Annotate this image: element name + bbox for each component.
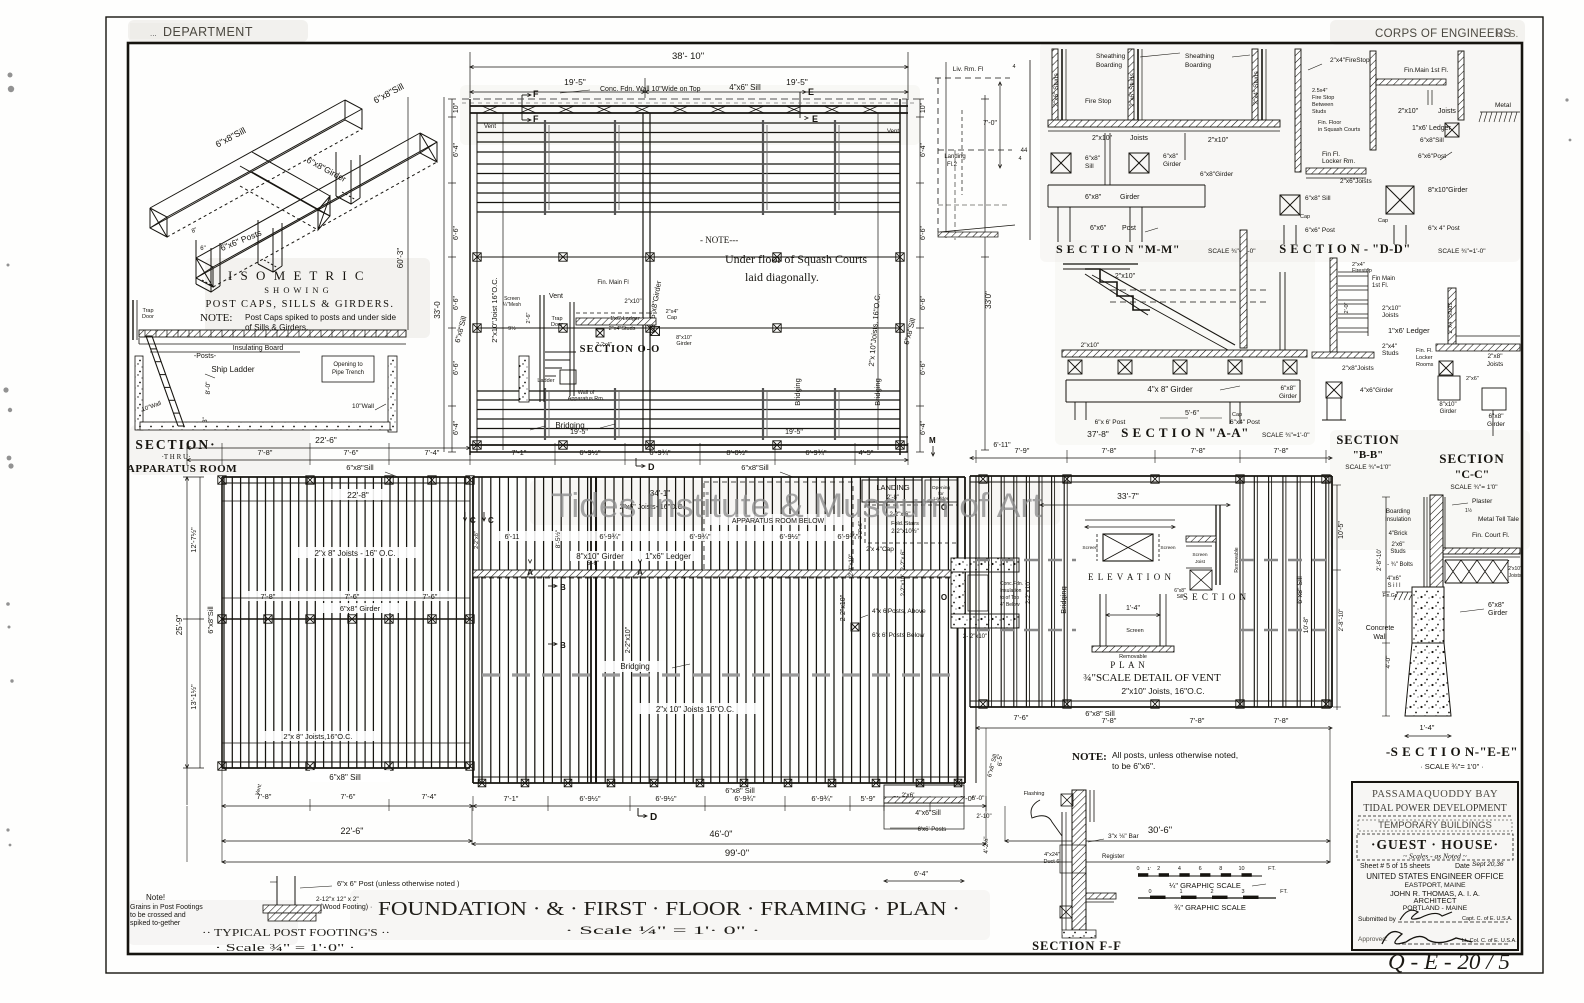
top plan left dims xyxy=(407,97,409,330)
svg-text:7'-4": 7'-4" xyxy=(425,448,440,457)
svg-text:TIDAL POWER DEVELOPMENT: TIDAL POWER DEVELOPMENT xyxy=(1363,803,1507,814)
svg-text:1'x6' Ledger: 1'x6' Ledger xyxy=(610,316,640,322)
svg-text:6'-6": 6'-6" xyxy=(920,226,927,240)
svg-text:Girder: Girder xyxy=(1120,194,1140,201)
svg-text:2'-10": 2'-10" xyxy=(976,814,991,820)
svg-text:6"x8" Sill: 6"x8" Sill xyxy=(1305,195,1331,202)
svg-text:2'x6": 2'x6" xyxy=(1392,542,1405,548)
section B-B xyxy=(1330,258,1337,352)
svg-text:8"x10"Girder: 8"x10"Girder xyxy=(1428,187,1468,194)
main plan left dim lines xyxy=(186,477,188,805)
svg-text:Between: Between xyxy=(1312,102,1333,108)
svg-text:Submitted by: Submitted by xyxy=(1358,916,1397,923)
svg-text:1"x6' Ledger: 1"x6' Ledger xyxy=(1412,125,1452,132)
svg-text:Cap: Cap xyxy=(1232,412,1242,418)
section E-E concrete xyxy=(1412,587,1444,643)
svg-text:Girder: Girder xyxy=(1163,161,1182,168)
svg-text:4: 4 xyxy=(1012,64,1015,70)
svg-text:Fin. Court Fl.: Fin. Court Fl. xyxy=(1472,532,1510,539)
svg-text:Grains in Post Footings: Grains in Post Footings xyxy=(130,904,203,911)
svg-text:Sill: Sill xyxy=(1085,163,1094,170)
svg-text:4: 4 xyxy=(1018,156,1021,162)
svg-text:33'-0: 33'-0 xyxy=(433,301,442,319)
svg-text:6"x8": 6"x8" xyxy=(1085,194,1102,201)
svg-text:6'-9½": 6'-9½" xyxy=(579,794,601,803)
svg-text:4"x6" Sill: 4"x6" Sill xyxy=(729,83,761,92)
svg-text:S E C T I O N: S E C T I O N xyxy=(1183,592,1247,602)
svg-text:-Posts-: -Posts- xyxy=(194,353,217,360)
svg-text:10"Wall: 10"Wall xyxy=(352,403,374,410)
svg-text:6"x8" Sill: 6"x8" Sill xyxy=(725,786,755,795)
svg-text:NOTE:: NOTE: xyxy=(200,312,232,324)
svg-text:8'-0": 8'-0" xyxy=(205,381,212,395)
svg-text:6'-4": 6'-4" xyxy=(920,143,927,157)
svg-text:2-2"x10": 2-2"x10" xyxy=(901,574,907,597)
svg-text:7'-1": 7'-1" xyxy=(504,794,519,803)
svg-text:4"x 6'Posts, Above: 4"x 6'Posts, Above xyxy=(872,608,926,615)
svg-text:2"x8"Joists: 2"x8"Joists xyxy=(1342,365,1374,372)
svg-text:SECTION F-F: SECTION F-F xyxy=(1032,939,1122,953)
svg-text:...: ... xyxy=(150,29,157,38)
svg-text:3: 3 xyxy=(1241,889,1244,895)
svg-text:2"x6" Studs: 2"x6" Studs xyxy=(1053,72,1060,106)
svg-text:2: 2 xyxy=(1157,866,1160,872)
svg-text:-S E C T I O N-"E-E": -S E C T I O N-"E-E" xyxy=(1386,744,1518,759)
svg-text:Joists: Joists xyxy=(1438,108,1456,115)
svg-text:6"x 6" Post (unless otherwise: 6"x 6" Post (unless otherwise noted ) xyxy=(337,879,460,888)
svg-text:2"x10": 2"x10" xyxy=(1092,135,1113,142)
svg-text:6'-9¾": 6'-9¾" xyxy=(599,532,621,541)
svg-text:Joists: Joists xyxy=(1130,135,1148,142)
svg-text:2-2"x 6": 2-2"x 6" xyxy=(901,550,907,571)
svg-text:7'-8": 7'-8" xyxy=(257,792,272,801)
isometric post caps sills girders xyxy=(150,100,437,292)
section C-C xyxy=(1448,288,1456,350)
vent detail elevation xyxy=(1085,519,1175,521)
svg-text:Apparatus Rm.: Apparatus Rm. xyxy=(568,396,605,402)
svg-text:10": 10" xyxy=(920,102,927,113)
svg-text:7'-1": 7'-1" xyxy=(512,448,527,457)
top plan girder splice rows xyxy=(477,256,900,258)
svg-text:Date: Date xyxy=(1455,863,1470,870)
section E-E truss xyxy=(1445,559,1508,561)
left room bottom sill xyxy=(222,761,470,763)
svg-text:Door: Door xyxy=(142,314,154,320)
svg-text:6'x 6' Posts Below: 6'x 6' Posts Below xyxy=(872,632,925,639)
svg-text:3": 3" xyxy=(203,417,209,422)
svg-text:Firestop: Firestop xyxy=(1352,268,1372,274)
svg-text:2"x10": 2"x10" xyxy=(1398,108,1419,115)
svg-text:Lt. Col. C. of E. U.S.A.: Lt. Col. C. of E. U.S.A. xyxy=(1462,938,1517,944)
svg-text:33'0": 33'0" xyxy=(984,291,993,309)
svg-text:4'-0": 4'-0" xyxy=(1385,655,1392,669)
svg-text:Joists: Joists xyxy=(1382,312,1399,319)
section F-F flashing xyxy=(1031,800,1062,836)
hall labels xyxy=(604,661,666,672)
svg-text:Tides Institute & Museum of Ar: Tides Institute & Museum of Art xyxy=(551,487,1043,525)
svg-text:"C-C": "C-C" xyxy=(1455,467,1490,481)
svg-text:6"x8": 6"x8" xyxy=(1488,602,1505,609)
svg-text:M: M xyxy=(929,436,936,445)
svg-text:6'-9½": 6'-9½" xyxy=(579,448,601,457)
svg-text:33'-7": 33'-7" xyxy=(1117,491,1139,501)
svg-text:P L A N: P L A N xyxy=(1110,660,1146,670)
section M-M floor xyxy=(1048,120,1280,127)
svg-text:Vent: Vent xyxy=(484,124,496,130)
svg-text:Fin Main: Fin Main xyxy=(1372,276,1395,282)
svg-text:- NOTE---: - NOTE--- xyxy=(700,235,738,245)
svg-text:6'-4": 6'-4" xyxy=(914,871,928,878)
svg-text:19'-5": 19'-5" xyxy=(570,429,588,436)
svg-text:6"x8": 6"x8" xyxy=(1163,153,1179,160)
svg-text:6'-6": 6'-6" xyxy=(920,296,927,310)
svg-text:Insulating Board: Insulating Board xyxy=(233,345,284,352)
svg-text:Fin.Main 1st Fl.: Fin.Main 1st Fl. xyxy=(1404,67,1449,74)
svg-text:6"x8"Sill: 6"x8"Sill xyxy=(346,463,374,472)
svg-text:7'-6": 7'-6" xyxy=(344,448,359,457)
svg-text:Bridging: Bridging xyxy=(873,378,882,406)
svg-text:4"x24": 4"x24" xyxy=(1044,852,1060,858)
top plan concrete wall dashed xyxy=(462,98,916,100)
svg-text:Flashing: Flashing xyxy=(1024,791,1045,797)
svg-text:6'-5": 6'-5" xyxy=(998,754,1004,766)
svg-text:60'-3": 60'-3" xyxy=(396,248,405,269)
landing area xyxy=(862,480,922,502)
section E-E wall xyxy=(1430,495,1443,587)
vent detail plan xyxy=(1099,594,1101,646)
svg-text:2'x 4"Cap: 2'x 4"Cap xyxy=(866,546,894,553)
svg-text:Q - E - 20 / 5: Q - E - 20 / 5 xyxy=(1388,949,1510,974)
svg-text:0: 0 xyxy=(1136,866,1139,872)
svg-text:TEMPORARY BUILDINGS: TEMPORARY BUILDINGS xyxy=(1378,820,1492,831)
svg-text:(Wood Footing) ·: (Wood Footing) · xyxy=(320,904,372,911)
svg-text:6"x 4" Post: 6"x 4" Post xyxy=(1428,225,1460,232)
svg-text:Screen: Screen xyxy=(1082,545,1098,551)
svg-text:SCALE ¾"=1'-0": SCALE ¾"=1'-0" xyxy=(1438,248,1486,255)
svg-text:2-2"x10½": 2-2"x10½" xyxy=(891,528,919,535)
svg-text:2"x4" Studs: 2"x4" Studs xyxy=(1253,70,1260,104)
svg-text:2'-8"-10': 2'-8"-10' xyxy=(1377,549,1383,571)
svg-text:spiked to-gether: spiked to-gether xyxy=(130,920,181,927)
top plan right dims xyxy=(919,99,921,452)
svg-text:7'-6": 7'-6" xyxy=(345,592,360,601)
svg-text:0: 0 xyxy=(1148,889,1151,895)
svg-text:Girder: Girder xyxy=(676,341,691,347)
svg-text:25'-9": 25'-9" xyxy=(175,615,184,636)
svg-text:46'-0": 46'-0" xyxy=(710,829,733,839)
section M-M sill boxes xyxy=(1051,153,1071,173)
svg-text:2'-0": 2'-0" xyxy=(1344,302,1350,313)
right room bottom sill xyxy=(970,700,1332,702)
svg-text:S i l l: S i l l xyxy=(1387,583,1400,589)
svg-text:6'-0": 6'-0" xyxy=(972,795,986,802)
svg-text:Duct 6': Duct 6' xyxy=(1044,859,1061,865)
svg-text:F: F xyxy=(533,89,539,99)
svg-text:CORPS OF ENGINEERS: CORPS OF ENGINEERS xyxy=(1375,28,1511,40)
svg-text:·GUEST · HOUSE·: ·GUEST · HOUSE· xyxy=(1371,837,1499,852)
svg-text:Screen: Screen xyxy=(1126,628,1143,634)
svg-text:44: 44 xyxy=(1021,148,1028,154)
svg-text:4"x6"Girder: 4"x6"Girder xyxy=(1360,387,1394,394)
svg-text:2"x10": 2"x10" xyxy=(1382,305,1401,312)
left room labels xyxy=(330,489,386,500)
svg-text:6"x6": 6"x6" xyxy=(1090,225,1107,232)
svg-text:30'-6": 30'-6" xyxy=(1148,825,1172,836)
svg-text:10'-8": 10'-8" xyxy=(1303,616,1310,633)
svg-text:6"x8" Sill: 6"x8" Sill xyxy=(1085,709,1115,718)
svg-text:4'-5": 4'-5" xyxy=(859,448,874,457)
svg-text:38'- 10": 38'- 10" xyxy=(672,51,704,62)
main plan left room joists xyxy=(224,477,465,768)
svg-text:2"x6" Studs: 2"x6" Studs xyxy=(1129,72,1136,106)
svg-text:8"x10" Girder: 8"x10" Girder xyxy=(576,552,624,561)
svg-text:Studs: Studs xyxy=(1312,109,1326,115)
svg-text:6"x8"Girder: 6"x8"Girder xyxy=(1200,171,1234,178)
right room bridging dashes xyxy=(976,559,1076,562)
svg-text:6'-9¾": 6'-9¾" xyxy=(805,448,827,457)
section E-E dims xyxy=(1385,497,1387,716)
svg-text:Wall: Wall xyxy=(1373,634,1387,641)
svg-text:Opening to: Opening to xyxy=(333,362,363,368)
svg-text:6'-9½": 6'-9½" xyxy=(655,794,677,803)
svg-text:Screen: Screen xyxy=(1160,545,1176,551)
svg-text:2'x10": 2'x10" xyxy=(1508,566,1522,572)
svg-text:NOTE:: NOTE: xyxy=(1072,751,1107,763)
svg-text:B: B xyxy=(560,641,566,650)
section E-E court floor xyxy=(1443,548,1520,554)
svg-text:Sheet # 5 of 15 sheets: Sheet # 5 of 15 sheets xyxy=(1360,863,1431,870)
svg-text:to be 6"x6".: to be 6"x6". xyxy=(1112,761,1155,771)
svg-text:2"x6"Joists: 2"x6"Joists xyxy=(1340,178,1372,185)
svg-text:7'-6": 7'-6" xyxy=(341,792,356,801)
svg-text:to be crossed and: to be crossed and xyxy=(130,912,186,919)
svg-text:·· TYPICAL POST FOOTING'S ··: ·· TYPICAL POST FOOTING'S ·· xyxy=(202,927,390,939)
svg-text:7'-8": 7'-8" xyxy=(1274,716,1289,725)
graphic scale three-quarter xyxy=(1138,897,1276,899)
svg-text:37'-8": 37'-8" xyxy=(1087,429,1109,439)
svg-text:2"x10"Joist 16"O.C.: 2"x10"Joist 16"O.C. xyxy=(490,277,499,343)
svg-text:7'-8": 7'-8" xyxy=(1274,446,1289,455)
svg-text:2"x 10" Joists 16"O.C.: 2"x 10" Joists 16"O.C. xyxy=(656,705,734,714)
svg-text:Metal Tell Tale: Metal Tell Tale xyxy=(1478,516,1519,523)
svg-text:2"x4"Studs: 2"x4"Studs xyxy=(609,326,636,332)
svg-text:6"x8": 6"x8" xyxy=(1280,385,1296,392)
svg-text:6'-6": 6'-6" xyxy=(453,361,460,375)
svg-text:E L E V A T I O N: E L E V A T I O N xyxy=(1088,572,1172,582)
svg-text:Cap: Cap xyxy=(1378,218,1388,224)
svg-text:9½: 9½ xyxy=(508,325,516,332)
svg-text:1'-4": 1'-4" xyxy=(1420,723,1435,732)
svg-text:6'-6": 6'-6" xyxy=(920,361,927,375)
main plan hall frame xyxy=(473,476,965,478)
svg-text:Removable: Removable xyxy=(1234,547,1240,573)
svg-text:4"x6"Sill: 4"x6"Sill xyxy=(915,810,941,817)
section A-A floor xyxy=(1062,350,1307,357)
svg-text:S E C T I O N "M-M": S E C T I O N "M-M" xyxy=(1056,242,1180,256)
svg-text:1st Fl.: 1st Fl. xyxy=(1372,283,1389,289)
svg-text:2"x10" Joists, 16"O.C.: 2"x10" Joists, 16"O.C. xyxy=(1121,686,1204,696)
svg-text:4: 4 xyxy=(1178,866,1181,872)
svg-text:Joists: Joists xyxy=(1509,573,1522,579)
svg-text:2-2"x8": 2-2"x8" xyxy=(474,531,480,549)
svg-text:All posts, unless otherwise no: All posts, unless otherwise noted, xyxy=(1112,750,1238,760)
svg-text:Joists: Joists xyxy=(1487,361,1504,368)
svg-text:Ladder: Ladder xyxy=(537,378,554,384)
hall girder band xyxy=(473,570,965,577)
svg-text:8"x10": 8"x10" xyxy=(1439,402,1456,408)
apparatus room below dashed xyxy=(704,482,853,570)
svg-text:Fl.2: Fl.2 xyxy=(947,162,958,168)
svg-text:· SCALE ¾"= 1'0" ·: · SCALE ¾"= 1'0" · xyxy=(1420,762,1484,771)
svg-text:Vent: Vent xyxy=(549,293,563,300)
svg-text:Insulation: Insulation xyxy=(1385,517,1411,523)
graphic scale quarter xyxy=(1138,875,1262,877)
svg-text:8: 8 xyxy=(1219,866,1222,872)
svg-text:6'-9½": 6'-9½" xyxy=(779,532,801,541)
section D-D girders xyxy=(1280,195,1300,215)
svg-text:6'-6": 6'-6" xyxy=(453,226,460,240)
svg-text:1"x6' Ledger: 1"x6' Ledger xyxy=(1388,326,1430,335)
svg-text:Capt. C. of E. U.S.A.: Capt. C. of E. U.S.A. xyxy=(1462,916,1513,922)
section D-D xyxy=(1295,49,1301,172)
svg-text:6'-11: 6'-11 xyxy=(505,534,520,541)
svg-text:Insulation: Insulation xyxy=(1000,588,1022,594)
svg-text:DEPARTMENT: DEPARTMENT xyxy=(163,25,253,39)
svg-text:Vent: Vent xyxy=(887,129,899,135)
svg-text:S E C T I O N "A-A": S E C T I O N "A-A" xyxy=(1121,425,1249,440)
svg-text:6"x8"Sill: 6"x8"Sill xyxy=(741,463,769,472)
svg-text:FT.: FT. xyxy=(1280,889,1288,895)
svg-text:2"x10": 2"x10" xyxy=(1208,137,1229,144)
top plan bottom band xyxy=(470,436,908,438)
svg-text:4"x6": 4"x6" xyxy=(1387,576,1401,582)
right room frame xyxy=(970,475,1332,477)
svg-text:6'-4": 6'-4" xyxy=(453,421,460,435)
svg-text:S H O W I N G: S H O W I N G xyxy=(264,285,330,295)
svg-text:Cap: Cap xyxy=(1300,214,1310,220)
svg-text:8'-0½": 8'-0½" xyxy=(726,448,748,457)
svg-text:Fin. Floor: Fin. Floor xyxy=(1318,120,1341,126)
svg-text:6'-4": 6'-4" xyxy=(920,421,927,435)
svg-text:6'-6": 6'-6" xyxy=(453,296,460,310)
svg-text:2.5x4": 2.5x4" xyxy=(1312,88,1327,94)
svg-text:POST CAPS, SILLS & GIRDERS.: POST CAPS, SILLS & GIRDERS. xyxy=(205,299,394,310)
svg-text:Bridging: Bridging xyxy=(620,662,649,671)
svg-text:Bridging: Bridging xyxy=(793,378,802,406)
top plan sill band xyxy=(470,105,908,107)
svg-text:Note!: Note! xyxy=(146,893,165,902)
svg-text:SCALE ¾"=1'-0": SCALE ¾"=1'-0" xyxy=(1262,432,1310,439)
svg-text:Girder: Girder xyxy=(1487,421,1506,428)
svg-text:6'-9¾": 6'-9¾" xyxy=(811,794,833,803)
svg-text:Conc. Fdn. Wall 10"Wide on Top: Conc. Fdn. Wall 10"Wide on Top xyxy=(600,86,701,93)
svg-text:10: 10 xyxy=(1238,866,1244,872)
svg-text:Sheathing: Sheathing xyxy=(1096,53,1126,60)
svg-text:Girder: Girder xyxy=(1279,393,1298,400)
svg-text:Ship Ladder: Ship Ladder xyxy=(211,365,254,374)
svg-text:Rooms: Rooms xyxy=(1416,362,1434,368)
svg-text:Locker Rm.: Locker Rm. xyxy=(1322,158,1355,165)
svg-text:19'-5": 19'-5" xyxy=(786,77,808,87)
svg-text:Boarding: Boarding xyxy=(1386,509,1410,515)
svg-text:7'-9": 7'-9" xyxy=(1015,446,1030,455)
svg-text:6"x8": 6"x8" xyxy=(1488,413,1504,420)
margin marks xyxy=(8,73,13,78)
svg-text:2-2"x10": 2-2"x10" xyxy=(849,554,855,577)
svg-text:B: B xyxy=(560,583,566,592)
svg-text:7'-8": 7'-8" xyxy=(258,448,273,457)
svg-text:7'-8": 7'-8" xyxy=(1102,446,1117,455)
svg-text:Fire Stop: Fire Stop xyxy=(1085,98,1112,105)
svg-text:A: A xyxy=(637,568,643,577)
section thru apparatus room xyxy=(139,330,406,337)
svg-text:Boarding: Boarding xyxy=(1096,62,1122,69)
svg-text:2"x10": 2"x10" xyxy=(1115,273,1136,280)
svg-text:2'-6": 2'-6" xyxy=(526,312,532,323)
svg-text:SECTION·: SECTION· xyxy=(135,437,216,452)
concrete foundation detail hall right xyxy=(951,558,1019,572)
svg-text:Girder: Girder xyxy=(1440,409,1457,415)
svg-text:· Scale ¼" = 1'· 0" ·: · Scale ¼" = 1'· 0" · xyxy=(565,923,760,937)
svg-text:Pipe Trench: Pipe Trench xyxy=(332,370,364,376)
svg-text:10'-5": 10'-5" xyxy=(1338,521,1345,539)
post footing detail xyxy=(276,876,278,905)
svg-text:13'-1½": 13'-1½" xyxy=(189,684,198,710)
left room girder xyxy=(222,618,470,620)
svg-text:2"x 8" Joists,16"O.C.: 2"x 8" Joists,16"O.C. xyxy=(283,732,352,741)
svg-text:Studs: Studs xyxy=(1382,350,1399,357)
header left xyxy=(130,23,246,39)
svg-text:6"x8" Girder: 6"x8" Girder xyxy=(340,604,381,613)
right vertical dim xyxy=(1336,485,1338,710)
svg-text:Under floor of Squash Courts: Under floor of Squash Courts xyxy=(725,252,867,266)
svg-text:7'-8": 7'-8" xyxy=(1190,716,1205,725)
svg-text:SCALE ¾"=1'-0": SCALE ¾"=1'-0" xyxy=(1208,248,1256,255)
svg-text:Door: Door xyxy=(551,322,563,328)
svg-text:7'-4": 7'-4" xyxy=(422,792,437,801)
svg-text:7'-8": 7'-8" xyxy=(1191,446,1206,455)
svg-text:Joist: Joist xyxy=(1195,559,1206,565)
svg-text:6'-9¾": 6'-9¾" xyxy=(689,532,711,541)
svg-text:Post Caps spiked to posts and: Post Caps spiked to posts and under side xyxy=(245,313,397,322)
scan shading patches xyxy=(128,20,308,42)
svg-text:~ Scales - as Noted ~: ~ Scales - as Noted ~ xyxy=(1403,852,1467,861)
svg-text:2"x8": 2"x8" xyxy=(1487,353,1503,360)
main plan hall joists xyxy=(482,477,957,783)
svg-text:in Squash Courts: in Squash Courts xyxy=(1318,127,1360,133)
svg-text:APPARATUS ROOM: APPARATUS ROOM xyxy=(127,463,237,475)
svg-text:1"x6" Ledger: 1"x6" Ledger xyxy=(645,552,691,561)
svg-text:A: A xyxy=(527,568,533,577)
living room floor dashed outline xyxy=(935,77,1010,79)
svg-text:Concrete: Concrete xyxy=(1366,625,1395,632)
svg-text:- ¾" Bolts: - ¾" Bolts xyxy=(1387,562,1413,568)
svg-text:Girder: Girder xyxy=(1488,610,1508,617)
svg-text:2- 2"x10": 2- 2"x10" xyxy=(963,634,987,640)
svg-text:3"x ⅛" Bar: 3"x ⅛" Bar xyxy=(1108,833,1139,840)
svg-text:"B-B": "B-B" xyxy=(1353,449,1384,461)
top plan joists lower xyxy=(477,391,900,429)
svg-text:1½: 1½ xyxy=(1465,507,1473,514)
vent detail section xyxy=(1215,505,1217,585)
main plan left room frame xyxy=(222,476,470,478)
svg-text:Post: Post xyxy=(1122,225,1136,232)
hall bridging xyxy=(482,673,958,676)
svg-text:Sept 20,36: Sept 20,36 xyxy=(1472,861,1504,868)
svg-text:Fin Fl.: Fin Fl. xyxy=(1322,151,1340,158)
svg-text:O: O xyxy=(941,593,947,602)
svg-text:D: D xyxy=(650,812,657,823)
